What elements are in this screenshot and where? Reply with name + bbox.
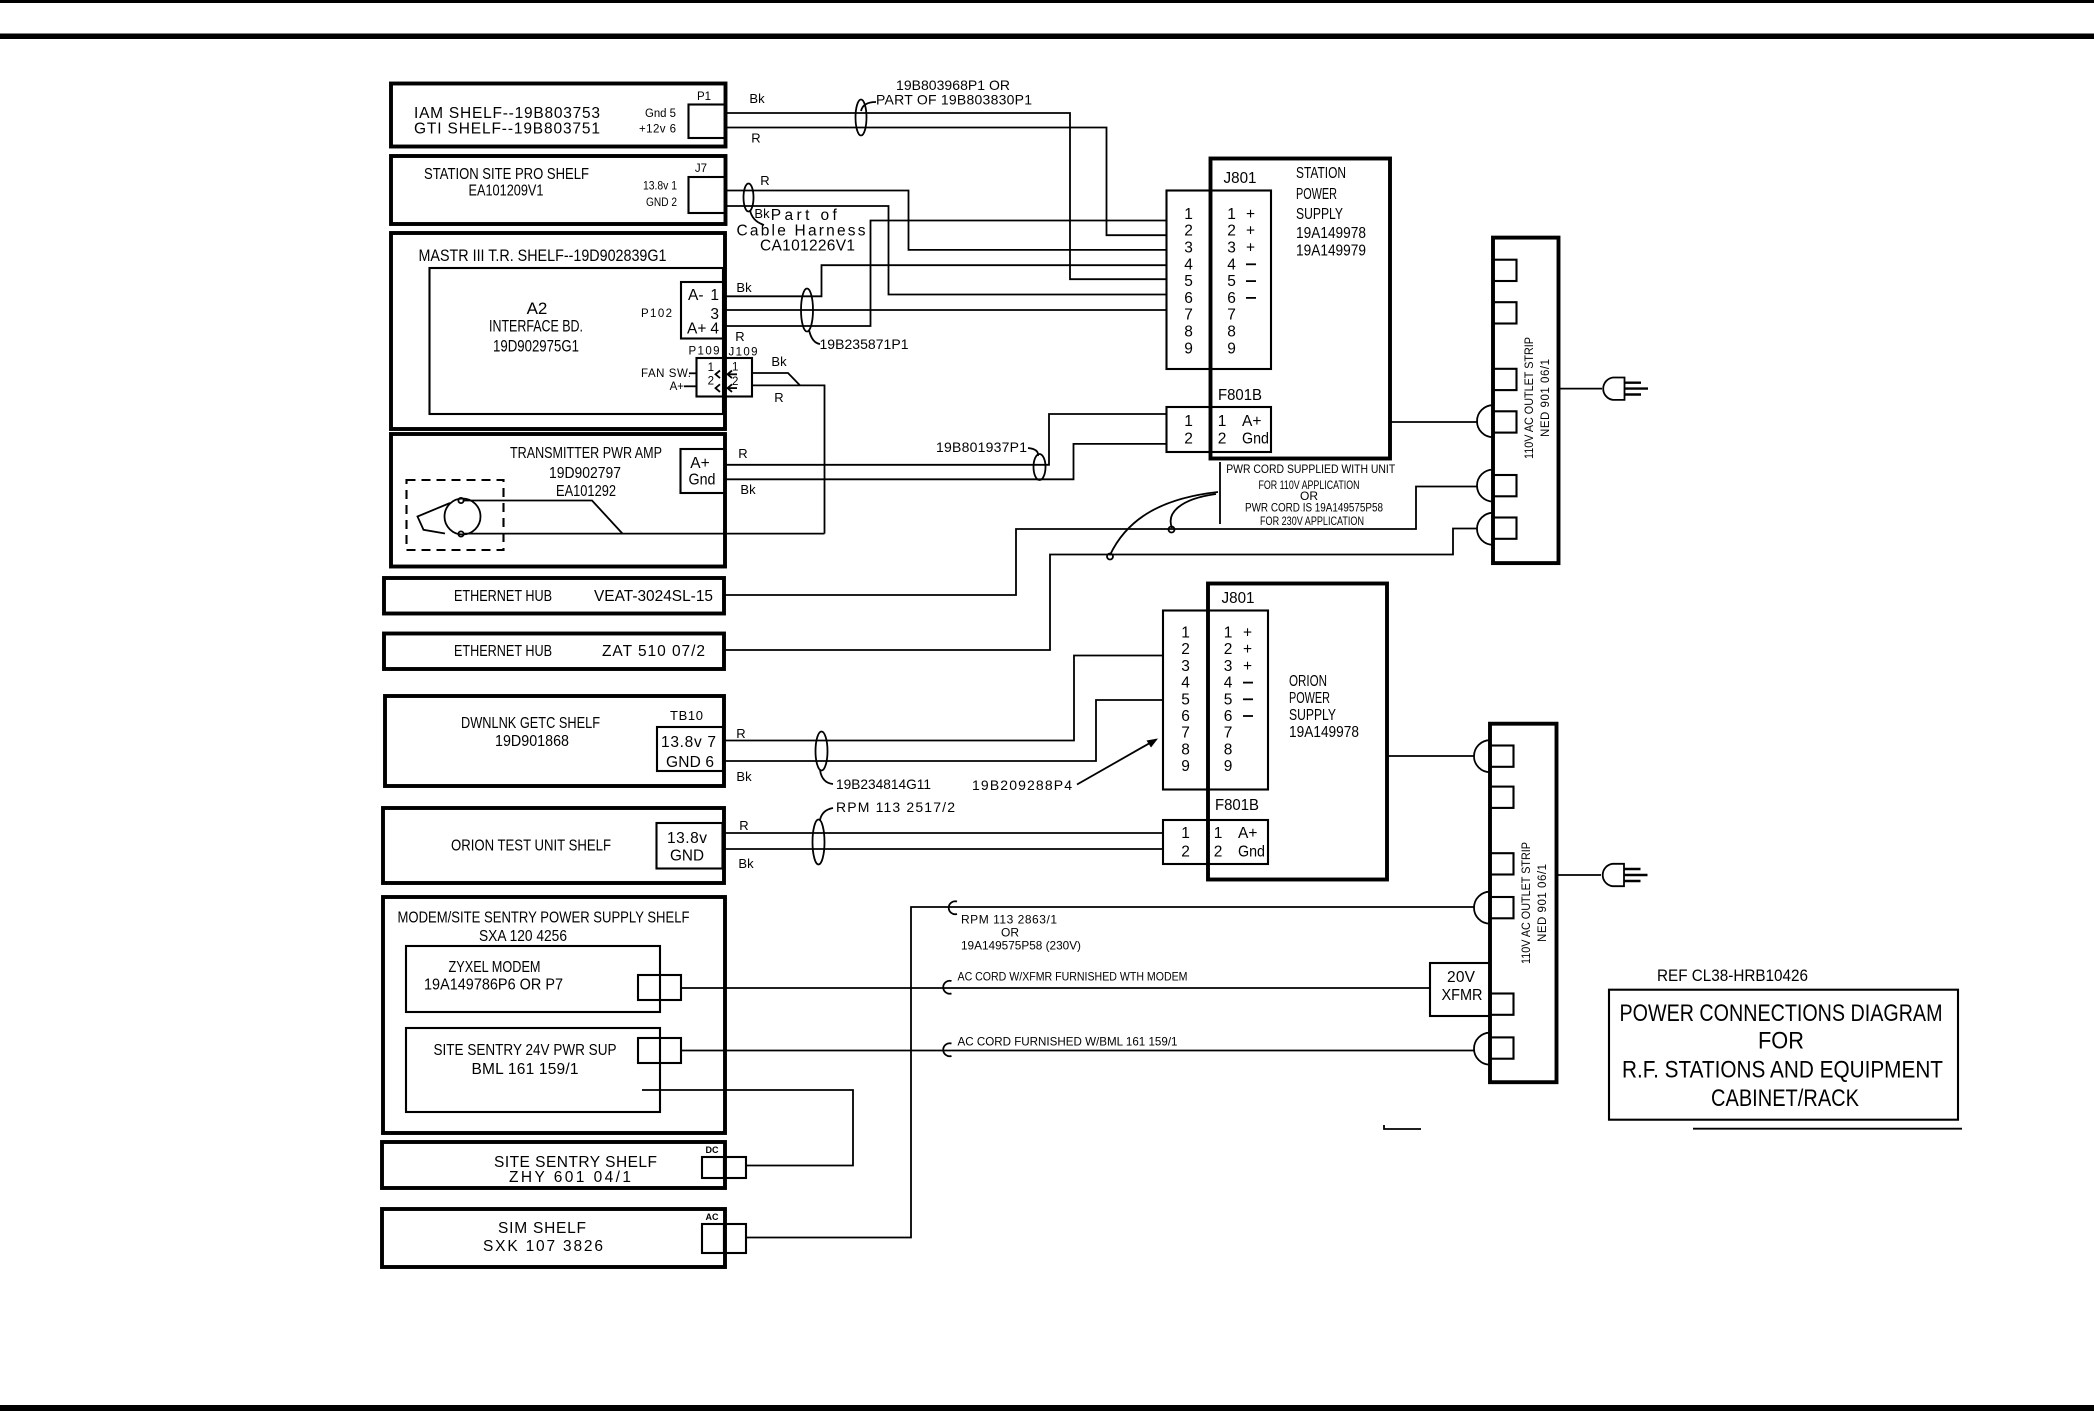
cord hook BML	[943, 1043, 951, 1056]
wire fan lower terminal to J109 cable	[464, 533, 825, 535]
plug arc outlet4 (RPM cord)	[1474, 892, 1490, 924]
bottom border bar	[0, 1405, 2094, 1411]
Site Sentry shelf box ZHY 601 04/1	[382, 1142, 725, 1188]
title underline	[1693, 1128, 1962, 1130]
svg-text:Gnd: Gnd	[1238, 844, 1265, 861]
strip2 outlet sockets	[1491, 746, 1514, 1059]
110V AC outlet strip 2 NED 901 06/1	[1490, 724, 1557, 1082]
svg-text:19A149978: 19A149978	[1296, 225, 1366, 242]
svg-text:PWR CORD IS 19A149575P58: PWR CORD IS 19A149575P58	[1245, 501, 1383, 515]
svg-text:A+: A+	[1238, 825, 1257, 842]
svg-text:SXK 107 3826: SXK 107 3826	[483, 1238, 603, 1255]
svg-text:Gnd: Gnd	[689, 472, 716, 489]
svg-text:8: 8	[1227, 324, 1236, 341]
J801 orion pin numbers and polarity	[1181, 625, 1253, 776]
svg-text:1: 1	[732, 362, 738, 374]
svg-text:ZYXEL MODEM: ZYXEL MODEM	[449, 959, 541, 976]
svg-text:J801: J801	[1222, 590, 1255, 607]
svg-text:1: 1	[708, 362, 714, 374]
wire P102 pin4 R to J801 pin 1	[725, 221, 1167, 327]
cable tie RPM 113 2517/2	[813, 820, 825, 865]
svg-text:19B801937P1: 19B801937P1	[936, 439, 1027, 455]
svg-text:SITE SENTRY 24V PWR SUP: SITE SENTRY 24V PWR SUP	[434, 1042, 617, 1059]
svg-text:6: 6	[1184, 290, 1193, 307]
svg-text:MASTR III T.R. SHELF--19D90283: MASTR III T.R. SHELF--19D902839G1	[419, 246, 667, 265]
svg-text:19B235871P1: 19B235871P1	[820, 336, 909, 352]
wire GND Bk to Orion F801B pin 2	[723, 848, 1164, 850]
wire SIM AC cord RPM 113 2863/1 to outlet strip 2	[746, 907, 1474, 1238]
svg-text:TRANSMITTER PWR AMP: TRANSMITTER PWR AMP	[510, 445, 662, 462]
svg-text:RPM 113 2517/2: RPM 113 2517/2	[836, 799, 955, 815]
svg-text:4: 4	[710, 321, 719, 338]
svg-text:ORION: ORION	[1289, 673, 1327, 690]
leader arrow to orion J801	[1077, 739, 1158, 785]
svg-text:2: 2	[1184, 431, 1193, 448]
cable tie CA101226V1	[744, 184, 754, 212]
svg-text:POWER: POWER	[1289, 690, 1330, 707]
svg-text:AC: AC	[706, 1212, 719, 1222]
DWNLNK GETC shelf box 19D901868	[385, 696, 724, 786]
plug arc outlet6 (BML cord)	[1474, 1033, 1490, 1065]
IAM/GTI shelf box 19B803753/19B803751	[391, 84, 726, 147]
svg-text:19B209288P4: 19B209288P4	[972, 777, 1072, 793]
svg-text:8: 8	[1224, 741, 1233, 758]
svg-text:5: 5	[1227, 273, 1236, 290]
cable label 19B803968P1 OR PART OF 19B803830P1	[876, 77, 1032, 108]
svg-text:SUPPLY: SUPPLY	[1296, 206, 1343, 223]
svg-text:Bk: Bk	[740, 482, 756, 497]
connector TB10	[657, 708, 723, 771]
110V AC outlet strip 1 NED 901 06/1	[1493, 238, 1559, 563]
svg-text:CA101226V1: CA101226V1	[760, 238, 855, 255]
svg-text:EA101292: EA101292	[556, 483, 616, 500]
Orion power supply box 19A149978	[1208, 584, 1387, 880]
title block box	[1609, 990, 1958, 1120]
svg-text:19A149979: 19A149979	[1296, 243, 1366, 260]
wire 24V DC output to Site Sentry shelf	[642, 1090, 853, 1166]
svg-text:4: 4	[1224, 675, 1233, 692]
svg-text:2: 2	[1218, 431, 1227, 448]
wire J7 Bk to J801 pin 6	[725, 206, 1167, 295]
svg-text:3: 3	[1224, 658, 1233, 675]
svg-text:OR: OR	[1001, 926, 1019, 940]
svg-text:Bk: Bk	[736, 280, 752, 295]
wire A+ R to station F801B pin 1	[726, 414, 1167, 465]
svg-text:19D902975G1: 19D902975G1	[493, 337, 579, 356]
connector F801B orion	[1163, 797, 1268, 864]
svg-text:1: 1	[1184, 413, 1193, 430]
svg-text:A-: A-	[688, 287, 704, 304]
svg-text:19A149978: 19A149978	[1289, 724, 1359, 741]
svg-text:Gnd: Gnd	[1242, 431, 1269, 448]
svg-text:1: 1	[1218, 413, 1227, 430]
svg-text:6: 6	[1227, 290, 1236, 307]
svg-text:MODEM/SITE SENTRY POWER SUPPLY: MODEM/SITE SENTRY POWER SUPPLY SHELF	[398, 910, 690, 927]
wire J109 pin1 Bk to fan cable	[752, 373, 800, 385]
fan enclosure dashed box	[407, 480, 504, 550]
svg-text:J801: J801	[1224, 170, 1257, 187]
svg-text:13.8v 1: 13.8v 1	[643, 181, 677, 193]
P109 arrow pin1	[716, 371, 721, 379]
svg-text:INTERFACE BD.: INTERFACE BD.	[489, 317, 583, 336]
svg-text:NED 901 06/1: NED 901 06/1	[1540, 359, 1552, 437]
svg-text:REF CL38-HRB10426: REF CL38-HRB10426	[1657, 966, 1808, 985]
leader to 19B801937P1	[1028, 448, 1038, 456]
fan blower symbol	[418, 498, 481, 537]
svg-text:A+: A+	[690, 455, 709, 472]
svg-text:8: 8	[1184, 324, 1193, 341]
svg-text:DWNLNK GETC SHELF: DWNLNK GETC SHELF	[461, 715, 600, 732]
J109 arrow pin2	[728, 384, 738, 392]
connector P102	[641, 282, 725, 339]
wire BML AC cord to outlet strip 2	[681, 1050, 1474, 1052]
svg-text:7: 7	[1181, 725, 1190, 742]
svg-text:2: 2	[1224, 641, 1233, 658]
Ethernet hub VEAT-3024SL-15 box	[384, 578, 724, 614]
svg-text:9: 9	[1224, 758, 1233, 775]
P102 pin labels A- 1 / 3 / A+ 4	[687, 287, 719, 338]
svg-text:+12v 6: +12v 6	[639, 124, 676, 136]
svg-text:R: R	[736, 726, 745, 741]
svg-text:6: 6	[1181, 708, 1190, 725]
svg-text:13.8v 7: 13.8v 7	[661, 734, 716, 751]
svg-text:19A149786P6 OR P7: 19A149786P6 OR P7	[424, 977, 563, 994]
wire modem AC cord to 20V XFMR	[681, 987, 1430, 989]
leader to harness note	[750, 210, 764, 225]
svg-text:ORION TEST UNIT SHELF: ORION TEST UNIT SHELF	[451, 838, 611, 855]
Station Site Pro shelf box EA101209V1	[391, 156, 726, 224]
svg-text:BML 161 159/1: BML 161 159/1	[472, 1061, 579, 1078]
svg-text:R: R	[774, 390, 783, 405]
svg-text:3: 3	[1181, 658, 1190, 675]
leader arc from ZAT cord to note	[1107, 492, 1218, 560]
svg-text:2: 2	[1214, 844, 1223, 861]
wire J7 R to J801 pin 3	[725, 191, 1167, 250]
svg-text:R: R	[751, 131, 760, 146]
connector P109	[689, 346, 726, 397]
leader to 19B234814G11	[820, 770, 833, 784]
svg-text:EA101209V1: EA101209V1	[469, 183, 544, 200]
Site Sentry 24V AC connector	[638, 1038, 681, 1063]
J109 arrow pin1	[728, 371, 738, 379]
svg-text:5: 5	[1224, 691, 1233, 708]
svg-text:ETHERNET HUB: ETHERNET HUB	[454, 588, 552, 605]
connector DC	[702, 1145, 746, 1178]
svg-text:SXA 120 4256: SXA 120 4256	[479, 928, 567, 945]
plug arc outlet6 (ZAT cord)	[1477, 513, 1493, 545]
connector A+/Gnd	[681, 449, 726, 493]
cable tie 19B235871P1	[801, 289, 813, 332]
svg-text:POWER CONNECTIONS DIAGRAM: POWER CONNECTIONS DIAGRAM	[1620, 1000, 1943, 1027]
svg-text:FOR 230V APPLICATION: FOR 230V APPLICATION	[1260, 514, 1364, 528]
svg-text:7: 7	[1184, 307, 1193, 324]
svg-text:ZAT 510 07/2: ZAT 510 07/2	[602, 643, 705, 660]
connector J7	[689, 163, 726, 213]
Orion Test Unit shelf box	[383, 808, 724, 883]
wire ZAT hub power cord to outlet strip 1	[724, 529, 1478, 651]
leader to cable tie	[861, 102, 876, 111]
wire P102 pin3 to J801 pin 7	[725, 309, 1167, 311]
svg-text:PART OF 19B803830P1: PART OF 19B803830P1	[876, 92, 1032, 108]
A2 interface board 19D902975G1	[430, 268, 724, 414]
wire strip2 supply cord	[1557, 874, 1602, 876]
svg-text:3: 3	[1227, 240, 1236, 257]
svg-text:6: 6	[1224, 708, 1233, 725]
J801 station pin numbers and polarity	[1184, 206, 1256, 357]
svg-text:ZHY 601 04/1: ZHY 601 04/1	[509, 1169, 631, 1186]
svg-text:NED 901 06/1: NED 901 06/1	[1537, 864, 1549, 942]
svg-text:Bk: Bk	[754, 206, 770, 221]
svg-text:F801B: F801B	[1218, 387, 1262, 404]
svg-text:J109: J109	[729, 347, 758, 359]
svg-text:1: 1	[1181, 825, 1190, 842]
svg-text:19B234814G11: 19B234814G11	[836, 776, 931, 792]
svg-text:1: 1	[1224, 625, 1233, 642]
svg-text:R: R	[735, 329, 744, 344]
svg-text:R: R	[760, 173, 769, 188]
svg-text:A+: A+	[1242, 413, 1261, 430]
svg-text:ETHERNET HUB: ETHERNET HUB	[454, 643, 552, 660]
svg-text:PWR CORD SUPPLIED WITH UNIT: PWR CORD SUPPLIED WITH UNIT	[1226, 462, 1396, 476]
leader to RPM 113 2517/2	[820, 808, 833, 820]
svg-text:GND: GND	[670, 848, 704, 865]
svg-text:110V AC OUTLET STRIP: 110V AC OUTLET STRIP	[1524, 337, 1536, 459]
connector 13.8v/GND	[657, 823, 723, 869]
svg-text:2: 2	[708, 376, 714, 388]
Zyxel modem unit 19A149786P6	[406, 946, 660, 1012]
svg-text:SUPPLY: SUPPLY	[1289, 707, 1336, 724]
svg-text:CABINET/RACK: CABINET/RACK	[1711, 1085, 1859, 1112]
svg-text:XFMR: XFMR	[1442, 987, 1483, 1004]
svg-text:Bk: Bk	[736, 769, 752, 784]
svg-text:FOR: FOR	[1758, 1028, 1804, 1055]
wire P1 Bk to J801 pin 5	[725, 113, 1167, 279]
svg-text:AC CORD W/XFMR FURNISHED WTH M: AC CORD W/XFMR FURNISHED WTH MODEM	[958, 970, 1188, 984]
svg-text:8: 8	[1181, 741, 1190, 758]
cord hook modem	[943, 981, 951, 994]
wire P1 R to J801 pin 2	[725, 128, 1167, 236]
svg-text:2: 2	[1184, 223, 1193, 240]
F801B orion pin labels	[1181, 825, 1265, 861]
svg-text:A2: A2	[527, 299, 548, 318]
svg-text:1: 1	[1181, 625, 1190, 642]
svg-text:1: 1	[1227, 206, 1236, 223]
top border bar	[0, 0, 2094, 3]
header rule bar	[0, 34, 2094, 40]
svg-text:+: +	[1243, 625, 1252, 642]
Ethernet hub ZAT 510 07/2 box	[384, 634, 724, 670]
svg-text:GND 2: GND 2	[646, 197, 677, 209]
cable tie 19B801937P1	[1034, 454, 1046, 480]
svg-text:19A149575P58 (230V): 19A149575P58 (230V)	[961, 939, 1081, 953]
svg-text:Gnd 5: Gnd 5	[645, 108, 676, 120]
note delimiter line	[1219, 462, 1221, 524]
svg-text:19D901868: 19D901868	[495, 733, 569, 750]
wire orion PS power cord to outlet strip 2	[1387, 755, 1474, 757]
TB10 pin labels 13.8v 7 / GND 6	[661, 734, 716, 771]
svg-text:R: R	[739, 818, 748, 833]
svg-text:R.F. STATIONS AND EQUIPMENT: R.F. STATIONS AND EQUIPMENT	[1622, 1057, 1943, 1084]
connector AC	[702, 1212, 746, 1253]
svg-text:4: 4	[1184, 256, 1193, 273]
Zyxel modem AC connector	[638, 975, 681, 1000]
plug arc outlet4 (station PS cord)	[1477, 405, 1493, 437]
svg-text:+: +	[1246, 223, 1255, 240]
wall plug strip2	[1603, 864, 1648, 886]
svg-text:SIM SHELF: SIM SHELF	[498, 1220, 586, 1237]
svg-text:9: 9	[1227, 340, 1236, 357]
connector J801 orion	[1163, 590, 1268, 790]
wire Gnd Bk to station F801B pin 2	[726, 444, 1167, 479]
wire station PS power cord to outlet strip 1	[1390, 421, 1478, 423]
P109/J109 pin numbers	[708, 362, 739, 389]
leader arc from VEAT cord to note	[1169, 494, 1217, 533]
cord label RPM 113 2863/1 OR 19A149575P58 (230V)	[961, 913, 1081, 953]
revision mark	[1384, 1125, 1421, 1129]
svg-text:3: 3	[1184, 240, 1193, 257]
cable tie 19B803968P1	[856, 100, 867, 136]
svg-text:VEAT-3024SL-15: VEAT-3024SL-15	[594, 588, 713, 605]
svg-text:POWER: POWER	[1296, 186, 1337, 203]
cord hook RPM 113 2863/1	[949, 901, 957, 914]
Modem/Site Sentry power supply shelf box SXA 120 4256	[383, 897, 725, 1133]
svg-text:STATION: STATION	[1296, 165, 1346, 182]
svg-text:20V: 20V	[1447, 969, 1476, 986]
svg-text:+: +	[1246, 206, 1255, 223]
svg-text:7: 7	[1224, 725, 1233, 742]
svg-text:1: 1	[1214, 825, 1223, 842]
svg-text:Part of: Part of	[771, 207, 838, 224]
wire J109 pin2 R to fan	[752, 385, 825, 533]
svg-text:A+: A+	[687, 321, 706, 338]
svg-text:TB10: TB10	[670, 708, 703, 723]
P109 arrow pin2	[716, 384, 721, 392]
svg-text:STATION SITE PRO SHELF: STATION SITE PRO SHELF	[424, 166, 589, 183]
svg-text:GTI SHELF--19B803751: GTI SHELF--19B803751	[414, 121, 600, 138]
wire FAN SW. stub	[689, 372, 697, 374]
SIM shelf box SXK 107 3826	[382, 1209, 725, 1267]
svg-text:+: +	[1243, 641, 1252, 658]
cable tie 19B234814G11	[816, 732, 828, 771]
svg-text:13.8v: 13.8v	[667, 830, 707, 847]
svg-text:110V AC OUTLET STRIP: 110V AC OUTLET STRIP	[1521, 842, 1533, 964]
P1 pin labels Gnd 5 / +12v 6	[639, 108, 676, 136]
svg-text:19D902797: 19D902797	[549, 465, 621, 482]
wire P102 pin1 Bk to J801 pin 4	[725, 265, 1167, 296]
J7 pin labels 13.8v 1 / GND 2	[643, 181, 677, 210]
svg-text:P1: P1	[697, 91, 711, 103]
svg-text:4: 4	[1181, 675, 1190, 692]
leader to 19B235871P1	[809, 330, 820, 344]
svg-text:+: +	[1246, 240, 1255, 257]
svg-text:9: 9	[1181, 758, 1190, 775]
wire fan upper terminal	[464, 501, 623, 534]
svg-text:Bk: Bk	[738, 856, 754, 871]
svg-text:2: 2	[1181, 641, 1190, 658]
connector J801 station	[1167, 170, 1272, 369]
svg-text:2: 2	[732, 376, 738, 388]
svg-text:+: +	[1243, 658, 1252, 675]
plug arc outlet1 (orion PS cord)	[1474, 740, 1490, 772]
note PWR CORD 110V/230V application	[1226, 462, 1396, 528]
svg-text:IAM SHELF--19B803753: IAM SHELF--19B803753	[414, 105, 600, 122]
MASTR III T.R. shelf box 19D902839G1	[391, 233, 725, 429]
note Part of Cable Harness CA101226V1	[737, 207, 866, 255]
Station power supply box 19A149978/19A149979	[1211, 159, 1391, 459]
svg-text:J7: J7	[695, 163, 707, 175]
svg-text:2: 2	[1181, 844, 1190, 861]
Site Sentry 24V power supply unit BML 161 159/1	[406, 1028, 660, 1112]
F801B station pin labels	[1184, 413, 1269, 448]
svg-text:4: 4	[1227, 256, 1236, 273]
svg-text:RPM 113 2863/1: RPM 113 2863/1	[961, 913, 1057, 927]
svg-text:Bk: Bk	[771, 354, 787, 369]
svg-text:5: 5	[1184, 273, 1193, 290]
svg-text:F801B: F801B	[1215, 797, 1259, 814]
wire TB10 Bk to Orion J801 pin 5	[723, 700, 1163, 761]
wire 13.8v R to Orion F801B pin 1	[723, 832, 1164, 834]
svg-text:7: 7	[1227, 307, 1236, 324]
svg-text:Bk: Bk	[749, 91, 765, 106]
svg-text:AC CORD FURNISHED W/BML 161 15: AC CORD FURNISHED W/BML 161 159/1	[958, 1035, 1178, 1049]
connector J109	[725, 347, 758, 397]
wall plug strip1	[1603, 378, 1648, 400]
connector F801B station	[1167, 387, 1272, 452]
svg-text:1: 1	[710, 287, 719, 304]
svg-text:1: 1	[1184, 206, 1193, 223]
Transmitter PWR AMP shelf box 19D902797 EA101292	[391, 434, 725, 567]
svg-text:9: 9	[1184, 340, 1193, 357]
svg-text:5: 5	[1181, 691, 1190, 708]
wire VEAT hub power cord to outlet strip 1	[724, 487, 1478, 596]
transformer 20V XFMR	[1430, 963, 1490, 1016]
svg-text:A+: A+	[670, 381, 685, 393]
connector P1	[689, 91, 726, 138]
wire TB10 R to Orion J801 pin 2	[723, 656, 1163, 741]
strip1 outlet sockets	[1494, 260, 1517, 539]
svg-text:GND 6: GND 6	[666, 754, 714, 771]
svg-text:2: 2	[1227, 223, 1236, 240]
svg-text:FAN SW.: FAN SW.	[641, 368, 691, 380]
svg-text:DC: DC	[706, 1145, 719, 1155]
svg-text:R: R	[738, 446, 747, 461]
wire strip1 supply cord	[1559, 388, 1603, 390]
wire A+ stub	[684, 385, 697, 387]
plug arc outlet5 (VEAT cord)	[1477, 470, 1493, 502]
